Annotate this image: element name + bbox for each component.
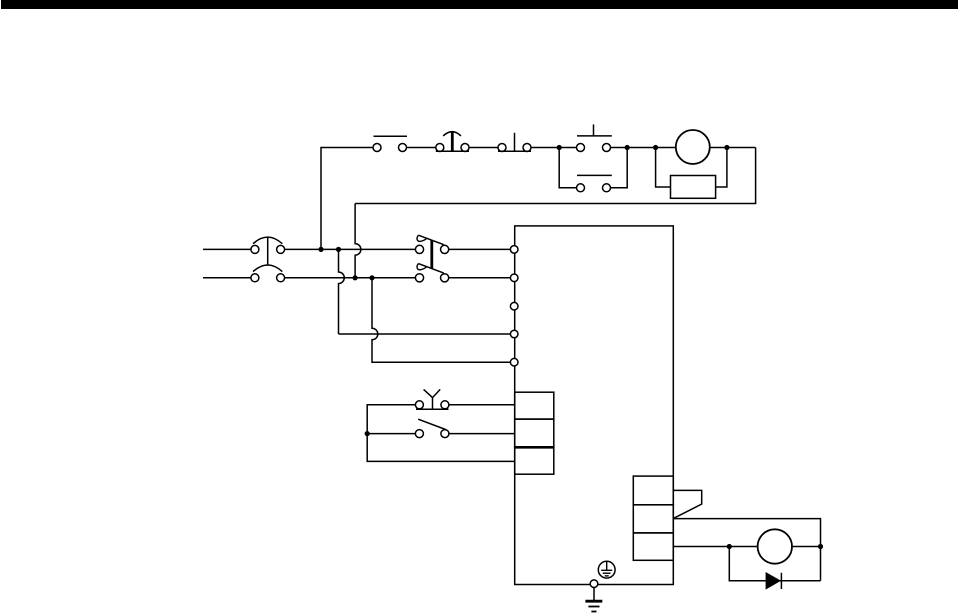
terminal 3 <box>510 302 518 310</box>
diode <box>766 572 782 590</box>
dual pushbutton NO contact <box>577 124 612 151</box>
circuit breaker link <box>267 237 269 265</box>
wire resistor right branch <box>716 148 727 188</box>
node right of dual pushbutton <box>625 145 630 150</box>
wire <box>531 147 577 149</box>
control unit enclosure <box>515 226 674 585</box>
node coil right <box>724 145 729 150</box>
wire diode branch <box>729 547 820 581</box>
contactor contact row 1 <box>415 235 448 253</box>
resistor (parallel with coil) <box>671 176 716 199</box>
node motor right <box>818 544 823 549</box>
earth ground symbol <box>585 588 602 612</box>
wire terminal-5 riser with hop over wire <box>372 278 510 362</box>
wire y334 to terminal 4 <box>339 333 511 335</box>
wire NC branch right <box>611 148 628 188</box>
wire switch1 to terminal block <box>449 404 515 406</box>
switch S1 normally-closed contact <box>373 136 407 151</box>
contactor contact row 2 <box>415 264 448 282</box>
heater block cell 3 <box>633 533 673 560</box>
wire L1 breaker to contactor <box>285 248 416 250</box>
drain pump motor <box>758 529 792 563</box>
wire row1 to terminal 1 <box>449 248 511 250</box>
terminal 5 <box>510 358 518 366</box>
terminal block thick divider <box>515 446 554 449</box>
heater block cell 2 <box>633 505 673 533</box>
node L2 control return tap <box>353 275 358 280</box>
flag symbol <box>673 490 701 518</box>
node left of dual pushbutton <box>557 145 562 150</box>
page header bar <box>1 0 958 9</box>
circuit breaker pole 2 terminals <box>251 274 259 282</box>
node coil left <box>653 145 658 150</box>
node on riser <box>365 431 370 436</box>
node L1 tap to control circuit <box>318 247 323 252</box>
circuit breaker pole 1 arc <box>253 237 282 244</box>
circuit breaker pole 2 arc <box>253 265 282 272</box>
dual pushbutton NC contact <box>577 175 612 191</box>
terminal block cell 2 <box>515 419 554 447</box>
terminal block cell 1 <box>515 392 554 419</box>
terminal 1 <box>510 246 518 254</box>
wire return riser with hop over L1 <box>355 204 361 278</box>
wire coil right <box>710 147 756 149</box>
wire switch2 to terminal block <box>449 433 515 435</box>
wire L2 feed from source <box>203 277 251 279</box>
wire control feed riser <box>321 148 373 250</box>
chassis ground terminal <box>590 580 598 588</box>
terminal 2 <box>510 274 518 282</box>
pushbutton (normally open) <box>498 133 531 152</box>
wire motor supply top <box>673 519 820 581</box>
wire NC branch left <box>559 148 576 188</box>
node motor left <box>727 544 732 549</box>
contactor mechanical link <box>430 240 433 269</box>
wire row2 to terminal 2 <box>449 277 511 279</box>
wire L2 breaker to contactor <box>285 277 416 279</box>
lower-left switch group riser <box>367 405 515 462</box>
wire control return drop <box>355 148 755 204</box>
wire L1 feed from source <box>203 248 251 250</box>
circuit breaker (2-pole) pole 1 terminals <box>251 245 259 253</box>
wire <box>407 147 436 149</box>
wire <box>469 147 498 149</box>
timer motor coil <box>676 130 710 164</box>
terminal block cell 3 <box>515 447 554 474</box>
protective earth symbol <box>598 561 615 578</box>
wire motor to right node <box>792 546 821 548</box>
door switch 2 (normally open) <box>415 419 449 437</box>
wire <box>611 147 676 149</box>
thermal cutout switch <box>436 132 469 152</box>
terminal 4 <box>510 330 518 338</box>
door switch 1 (with break actuator) <box>415 389 449 409</box>
node L2 tap to terminal 5 <box>369 275 374 280</box>
heater block cell 1 <box>633 476 673 505</box>
wire row2 feed <box>367 433 415 435</box>
wire resistor left branch <box>656 148 671 188</box>
wire terminal-4 riser with hop over L2 <box>339 249 345 334</box>
node L1 tap to terminal 4 <box>336 247 341 252</box>
wire motor row <box>673 546 757 548</box>
